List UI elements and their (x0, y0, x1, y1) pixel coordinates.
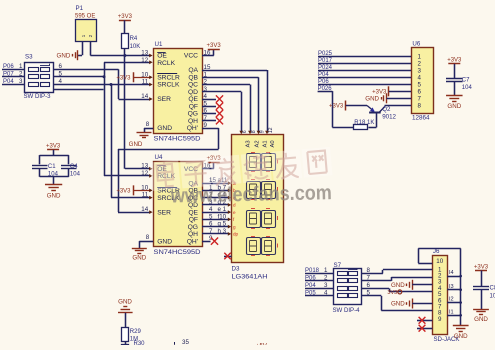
svg-text:QH': QH' (187, 125, 198, 132)
ground GND above R29 (118, 299, 133, 328)
connector U6 12864 LCD header (412, 41, 434, 122)
wire bus V2 SRCLK to U4 pin11 (111, 85, 153, 200)
wire P025 to U6 pin1 (318, 51, 411, 57)
svg-text:P06: P06 (305, 276, 316, 282)
svg-text:SER: SER (157, 96, 171, 103)
connector J6 SD-JACKIND (433, 248, 461, 343)
svg-text:SW DIP-4: SW DIP-4 (333, 307, 361, 314)
svg-text:5: 5 (418, 82, 422, 89)
no-connect X on U1 QE (202, 95, 223, 102)
wire S3 pin2 P07 (2, 70, 24, 77)
ground GND at J6 shield (453, 326, 469, 340)
svg-text:2: 2 (19, 70, 23, 77)
svg-text:4: 4 (324, 290, 328, 297)
svg-text:GND: GND (132, 255, 146, 262)
svg-text:GND: GND (391, 301, 405, 308)
svg-text:1K: 1K (367, 120, 374, 126)
svg-text:GND: GND (157, 125, 172, 132)
wire U4 QD to D3 segment d 2 (202, 199, 231, 207)
svg-text:P017: P017 (318, 58, 333, 64)
svg-text:QC: QC (188, 82, 198, 89)
svg-text:2: 2 (88, 34, 94, 37)
op-amp U1 SN74HC595D shift register (141, 41, 211, 143)
svg-text:OE: OE (157, 53, 167, 60)
wire net SER vertical to U1 pin14 (119, 69, 153, 101)
wire S3 pin5 RCLK net (53, 70, 105, 78)
header P1 595_OE (75, 5, 97, 42)
wire S7 pin5 to J6 pin7 DO (361, 289, 432, 310)
svg-text:6: 6 (418, 89, 422, 96)
wire +3V3 to R4 (124, 20, 126, 33)
svg-text:12: 12 (141, 57, 148, 64)
svg-text:SN74HC595D: SN74HC595D (154, 136, 201, 143)
svg-text:QG: QG (188, 111, 198, 118)
svg-text:A0: A0 (270, 140, 276, 147)
svg-text:P024: P024 (318, 65, 333, 71)
svg-text:C1: C1 (48, 164, 56, 170)
wire J6 I1 stub (447, 310, 462, 317)
svg-text:QA: QA (188, 67, 198, 74)
wire U4 QH to D3 segment h 3 (202, 228, 231, 236)
svg-text:P018: P018 (305, 268, 320, 274)
svg-text:+3V3: +3V3 (118, 14, 133, 20)
svg-text:+3V3: +3V3 (447, 58, 462, 64)
wire R18 to Q2 base (368, 113, 376, 128)
no-connect X on D3 lower left pin (224, 253, 232, 259)
wire U1 QB to D3 pin9 (202, 77, 260, 134)
svg-text:QH': QH' (187, 238, 198, 245)
power 3V3 tap on J6 pin5 (387, 290, 401, 296)
svg-text:S7: S7 (334, 262, 342, 269)
svg-text:10: 10 (436, 258, 443, 265)
svg-text:e: e (233, 210, 236, 215)
wire U4 QG to D3 segment g 5 (202, 221, 231, 229)
svg-text:QF: QF (189, 217, 198, 224)
svg-text:11: 11 (142, 192, 149, 199)
svg-text:+3V3: +3V3 (116, 75, 131, 81)
svg-text:D3: D3 (232, 266, 240, 273)
svg-text:R29: R29 (130, 329, 142, 335)
ground GND below U4 (132, 249, 147, 262)
svg-text:f10: f10 (218, 213, 227, 220)
wire U4 QA to D3 segment a11 (202, 177, 231, 185)
wire U1 GND pin8 to ground (144, 128, 153, 133)
svg-text:QB: QB (188, 74, 198, 81)
svg-text:+3V3: +3V3 (116, 188, 131, 194)
svg-text:35: 35 (182, 339, 189, 345)
svg-text:104: 104 (490, 294, 495, 300)
ground GND at J6 pin4 (391, 280, 432, 290)
svg-text:SER: SER (157, 209, 171, 216)
text fragment 35 at bottom (175, 339, 190, 346)
wire S7 pin8 to J6 pin1 (361, 267, 432, 274)
svg-text:3: 3 (324, 282, 328, 289)
svg-text:595 OE: 595 OE (75, 14, 95, 20)
svg-text:104: 104 (462, 85, 473, 91)
svg-text:6: 6 (242, 130, 248, 133)
svg-text:SN74HC595D: SN74HC595D (154, 249, 201, 256)
svg-text:P06: P06 (3, 64, 14, 70)
wire P04 to U6 pin4 (318, 72, 411, 78)
svg-text:I3: I3 (449, 284, 454, 290)
svg-text:GND: GND (47, 192, 61, 199)
wire U4 QB to D3 segment b 7 (202, 184, 231, 192)
ground GND at U6 pin7 (365, 93, 411, 103)
svg-text:QG: QG (188, 224, 198, 231)
power +3V3 at U4 pin10 SRCLR (116, 185, 152, 195)
svg-text:3: 3 (19, 78, 23, 85)
svg-text:2: 2 (324, 275, 328, 282)
power +3V3 at C8 (474, 264, 489, 286)
svg-text:SW DIP-3: SW DIP-3 (24, 93, 52, 100)
svg-text:A3: A3 (246, 140, 252, 147)
svg-text:www.elecfans.com: www.elecfans.com (170, 181, 332, 207)
resistor R4 10K (122, 34, 141, 50)
digit cells of D3 display (247, 153, 278, 256)
switch S3 SW_DIP-3 (24, 54, 54, 101)
svg-text:P04: P04 (3, 79, 14, 85)
no-connect X on J6 pin8 (417, 317, 432, 324)
svg-text:P06: P06 (318, 79, 329, 85)
wire U1 QC to D3 pin8 (202, 85, 252, 135)
wire U1 QD to D3 pin6 (202, 92, 243, 135)
wire P017 to U6 pin2 (318, 58, 411, 64)
wire R4 to OE net junction (123, 49, 126, 58)
svg-text:P04: P04 (305, 283, 316, 289)
svg-text:QE: QE (188, 96, 198, 103)
svg-text:4: 4 (418, 75, 422, 82)
wire bus V1 RCLK to U1 pin12 and U4 pin12 (104, 60, 153, 177)
capacitor C4 104 (40, 164, 81, 184)
display D3 LG3641AH (232, 127, 284, 280)
text fragment at bottom center (256, 344, 267, 350)
ground GND at J6 pin6 (391, 299, 432, 309)
svg-text:g: g (233, 224, 236, 229)
svg-text:U4: U4 (155, 154, 163, 161)
svg-text:QH: QH (188, 231, 198, 238)
segment pin letters of D3 (233, 181, 239, 237)
svg-text:QH: QH (188, 118, 198, 125)
wire J6 pin10 shield loop to ground (418, 248, 460, 325)
svg-text:1: 1 (81, 34, 87, 37)
svg-text:GND: GND (118, 299, 132, 306)
svg-text:e 1: e 1 (218, 206, 227, 213)
svg-text:3: 3 (418, 68, 422, 75)
capacitor C8 104 (473, 286, 495, 310)
power +3V3 at U1 VCC (207, 43, 222, 49)
svg-text:14: 14 (141, 93, 148, 100)
wire U4 GND pin8 to ground (139, 241, 153, 248)
wire U1 VCC to +3V3 (202, 49, 214, 55)
wire Q2 collector to U6 pin8 (385, 105, 412, 107)
svg-text:I1: I1 (449, 310, 454, 316)
wire S3 pin1 P06 (2, 63, 24, 70)
svg-text:A1: A1 (263, 140, 269, 147)
svg-text:Q2: Q2 (382, 106, 391, 113)
svg-text:12864: 12864 (412, 115, 430, 122)
power +3V3 at U6 pin6 (372, 86, 411, 96)
wire S3 pin6 SER net (53, 63, 118, 70)
wire P024 to U6 pin3 (318, 65, 411, 71)
transistor Q2 9012 (346, 106, 397, 121)
wire U4 QC to D3 segment c 4 (202, 192, 231, 200)
svg-text:9: 9 (438, 316, 442, 323)
switch S7 SW_DIP-4 (333, 262, 362, 314)
capacitor C7 104 (446, 78, 472, 96)
svg-text:VCC: VCC (184, 53, 198, 60)
svg-text:QD: QD (188, 89, 198, 96)
resistor R30 partial (122, 341, 146, 347)
svg-text:GND: GND (365, 95, 379, 102)
svg-text:104: 104 (70, 172, 81, 178)
svg-text:GND: GND (447, 103, 461, 110)
svg-text:GND: GND (391, 282, 405, 289)
svg-text:2: 2 (418, 61, 422, 68)
ground GND at P1 (57, 50, 78, 60)
svg-text:7: 7 (418, 95, 422, 102)
svg-text:P1: P1 (76, 5, 84, 12)
resistor R29 1M (122, 328, 142, 343)
wire U1 QA to D3 pin12 (202, 70, 269, 134)
power +3V3 above R4 (118, 14, 133, 20)
ground GND below C1 C4 (45, 185, 62, 200)
svg-text:12: 12 (268, 127, 274, 133)
svg-text:dp: dp (233, 232, 239, 237)
svg-text:3V3: 3V3 (387, 290, 397, 296)
svg-text:P04: P04 (318, 72, 329, 78)
wire P04 to S7 pin3 (305, 282, 333, 289)
svg-text:U1: U1 (155, 41, 163, 48)
watermark elecfans chinese characters (150, 147, 333, 191)
svg-text:+3V3: +3V3 (329, 104, 344, 110)
ground GND below U1 (129, 133, 152, 149)
wire P1 pin2 down to OE net (90, 41, 92, 56)
svg-text:10K: 10K (130, 44, 141, 50)
op-amp U4 SN74HC595D shift register (141, 154, 216, 256)
wire S3 pin3 P04 (2, 78, 24, 85)
svg-text:SRCLR: SRCLR (157, 74, 180, 81)
svg-text:GND: GND (454, 333, 468, 340)
capacitor C1 104 (32, 155, 69, 177)
svg-text:SRCLK: SRCLK (157, 82, 180, 89)
no-connect X on U4 QH' (202, 238, 218, 245)
no-connect X on U1 QF (202, 103, 223, 110)
no-connect X on U1 QG (202, 110, 223, 117)
svg-text:QF: QF (189, 103, 198, 110)
svg-text:9: 9 (259, 130, 265, 133)
wire P06 to U6 pin5 (318, 79, 411, 85)
wire P05 to S7 pin4 (305, 290, 333, 297)
svg-text:GND: GND (129, 141, 143, 148)
wire S7 pin6 to J6 pin5 CLK (361, 282, 432, 292)
svg-text:P05: P05 (305, 291, 316, 297)
svg-text:LG3641AH: LG3641AH (232, 274, 268, 281)
svg-text:P07: P07 (3, 71, 14, 77)
svg-text:GND: GND (57, 52, 71, 59)
wire P018 to S7 pin1 (305, 267, 333, 274)
svg-text:S3: S3 (25, 54, 33, 61)
svg-text:P025: P025 (318, 51, 333, 57)
svg-text:A2: A2 (254, 140, 260, 147)
wire stub below S3 (53, 89, 103, 91)
svg-text:1: 1 (418, 54, 422, 61)
wire S3 pin4 SRCLK net (53, 78, 152, 87)
wire U4 VCC to +3V3 (202, 162, 214, 168)
no-connect X on J6 pin9 (417, 325, 432, 332)
svg-text:QE: QE (188, 209, 198, 216)
wire OE net to U1 pin13 (90, 54, 152, 58)
wire J6 I3 stub (447, 284, 462, 291)
power +3V3 at U4 VCC (207, 156, 222, 162)
svg-text:+3V3: +3V3 (474, 264, 489, 270)
wire J6 I2 stub (447, 297, 462, 304)
svg-text:U6: U6 (412, 41, 420, 48)
svg-text:9012: 9012 (382, 113, 396, 120)
svg-text:8: 8 (146, 234, 150, 241)
svg-text:12: 12 (141, 170, 148, 177)
resistor R18 1K (354, 120, 375, 130)
svg-text:8: 8 (418, 102, 422, 109)
wire P1 pin1 to ground (78, 41, 83, 56)
svg-text:I2: I2 (449, 297, 454, 303)
svg-text:RCLK: RCLK (157, 60, 175, 67)
svg-text:R30: R30 (134, 341, 146, 345)
svg-text:R18: R18 (354, 120, 366, 126)
wire U4 QE to D3 segment e 1 (202, 206, 231, 214)
svg-text:+3V3: +3V3 (46, 144, 61, 150)
power +3V3 at Q2 emitter (329, 101, 345, 111)
no-connect X on U1 QH (202, 117, 223, 124)
svg-text:g 5: g 5 (218, 221, 227, 228)
svg-text:13: 13 (141, 50, 148, 57)
wire P06 to S7 pin2 (305, 275, 333, 282)
wire P026 to R18 (318, 86, 354, 128)
svg-text:h 3: h 3 (218, 228, 227, 235)
svg-text:11: 11 (142, 79, 149, 86)
svg-text:13: 13 (141, 163, 148, 170)
wire U1 QH' cascade to U4 SER (118, 128, 219, 214)
svg-text:GND: GND (157, 238, 172, 245)
svg-text:+3V3: +3V3 (207, 43, 222, 49)
svg-text:8: 8 (146, 121, 150, 128)
power +3V3 at C7 (447, 58, 462, 78)
watermark elecfans url (170, 181, 332, 207)
wire U4 QF to D3 segment f10 (202, 213, 231, 221)
wire S7 pin7 to J6 pin2 (361, 274, 432, 281)
power +3V3 at C1 C4 (46, 144, 61, 156)
svg-text:1: 1 (19, 63, 23, 70)
svg-text:GND: GND (474, 316, 488, 323)
ground GND below C8 (473, 310, 489, 324)
svg-text:R4: R4 (130, 36, 138, 42)
svg-text:C7: C7 (462, 78, 470, 84)
power +3V3 at U1 pin10 SRCLR (116, 72, 152, 82)
svg-text:I4: I4 (449, 270, 454, 276)
svg-text:14: 14 (141, 206, 148, 213)
svg-text:1: 1 (324, 267, 328, 274)
wire bus V4 OE to U4 pin13 (125, 56, 153, 171)
svg-text:C8: C8 (490, 286, 495, 292)
wire J6 I4 stub (447, 270, 462, 277)
svg-text:C4: C4 (70, 164, 78, 170)
ground GND below C7 (446, 96, 463, 111)
svg-text:8: 8 (251, 130, 257, 133)
svg-text:+3V3: +3V3 (372, 89, 387, 95)
